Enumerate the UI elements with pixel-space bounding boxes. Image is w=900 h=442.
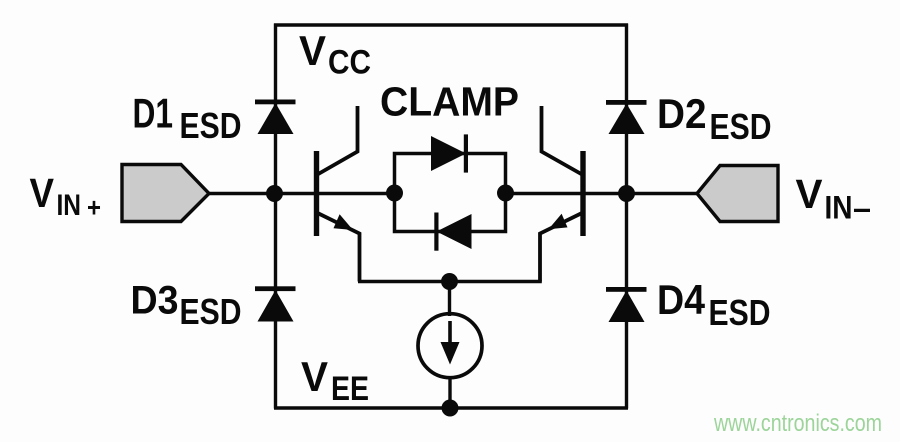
transistor Q2 emitter arrow <box>549 214 568 230</box>
svg-text:V: V <box>796 171 824 217</box>
diode D4 <box>606 287 647 322</box>
wire: VCC top rail <box>274 23 628 26</box>
wire: right vertical branch (VCC to VEE through D2/D4) <box>625 24 628 409</box>
current source I1 <box>418 314 482 378</box>
svg-text:V: V <box>299 27 326 74</box>
svg-text:EE: EE <box>331 370 369 408</box>
node: VEE rail junction <box>442 400 459 417</box>
clamp diode bottom <box>434 213 471 251</box>
node: emitter tail junction <box>441 273 458 290</box>
input pad VIN- <box>697 166 778 222</box>
wire: clamp loop rectangle <box>395 154 506 232</box>
svg-text:D2: D2 <box>657 90 707 137</box>
svg-text:+: + <box>87 193 101 223</box>
transistor Q1 <box>317 106 360 282</box>
wire: emitter tail rail <box>358 280 542 284</box>
svg-text:D3: D3 <box>131 279 179 323</box>
svg-text:www.cntronics.com: www.cntronics.com <box>713 410 882 437</box>
node: clamp right <box>497 185 514 202</box>
svg-text:CC: CC <box>328 44 371 82</box>
svg-text:D4: D4 <box>657 276 706 323</box>
node: VIN+ junction <box>266 185 283 202</box>
wire: clamp right node to VIN- pad <box>505 192 699 195</box>
wire: current source to VEE rail <box>448 377 451 409</box>
svg-text:ESD: ESD <box>180 105 242 146</box>
transistor Q1 emitter arrow <box>334 214 354 230</box>
svg-text:ESD: ESD <box>180 291 242 332</box>
svg-text:IN: IN <box>825 190 853 226</box>
input pad VIN+ <box>122 165 209 222</box>
node: VIN- junction <box>618 185 635 202</box>
svg-text:D1: D1 <box>133 90 174 137</box>
wire: input rail VIN+ to clamp left node <box>207 192 395 195</box>
svg-text:IN: IN <box>57 189 82 222</box>
svg-text:V: V <box>30 170 55 216</box>
svg-text:CLAMP: CLAMP <box>380 79 519 125</box>
transistor Q2 <box>540 106 583 282</box>
svg-text:–: – <box>853 190 871 226</box>
diode D1 <box>255 100 296 135</box>
svg-text:ESD: ESD <box>709 292 771 333</box>
wire: VEE bottom rail <box>274 406 628 409</box>
svg-text:V: V <box>301 353 328 400</box>
diode D2 <box>606 100 647 134</box>
node: clamp left <box>386 185 403 202</box>
svg-text:ESD: ESD <box>710 106 772 147</box>
wire: left vertical branch (VCC to VEE through D1/D3) <box>274 24 277 409</box>
wire: tail to current source <box>448 282 451 317</box>
diode D3 <box>255 286 296 321</box>
clamp diode top <box>431 134 468 172</box>
